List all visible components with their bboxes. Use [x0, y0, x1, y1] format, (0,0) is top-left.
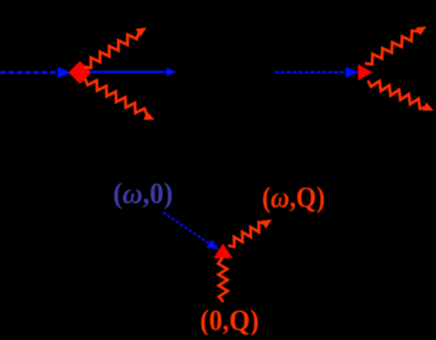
photon upper-right wavy (diagram 3) — [228, 222, 265, 247]
wire outgoing electron line (diagram 1) — [90, 71, 168, 73]
wire dashed blue diagonal (diagram 3) — [163, 213, 210, 245]
node photon arrowhead lower (diagram 1) — [144, 112, 155, 121]
node photon arrowhead lower (diagram 2) — [423, 102, 434, 110]
vertex triangle V2 — [358, 64, 373, 80]
photon upper wavy (diagram 1) — [84, 33, 139, 68]
svg-text:(0,Q): (0,Q) — [200, 304, 259, 335]
node photon arrowhead upper (diagram 1) — [136, 28, 147, 37]
photon lower wavy (diagram 2) — [368, 81, 427, 109]
node arrowhead of diagonal line (diagram 3) — [207, 240, 220, 251]
photon upper wavy (diagram 2) — [365, 31, 419, 65]
node arrowhead of outgoing line (diagram 1) — [167, 68, 177, 76]
node arrowhead of incoming line (diagram 2) — [346, 67, 360, 78]
photon lower wavy (diagram 1) — [85, 79, 147, 116]
node photon arrowhead upper (diagram 2) — [416, 27, 427, 36]
wire dashed electron line in (diagram 1) — [0, 71, 59, 74]
node arrowhead of incoming line (diagram 1) — [58, 67, 72, 79]
svg-text:(ω,0): (ω,0) — [113, 177, 173, 210]
svg-text:(ω,Q): (ω,Q) — [262, 181, 325, 214]
node photon arrowhead (diagram 3) — [261, 220, 272, 229]
photon downward wavy (diagram 3) — [218, 258, 228, 302]
vertex triangle V3 — [213, 244, 232, 259]
vertex diamond V1 — [69, 61, 92, 84]
wire dashed electron line in (diagram 2) — [275, 71, 347, 74]
